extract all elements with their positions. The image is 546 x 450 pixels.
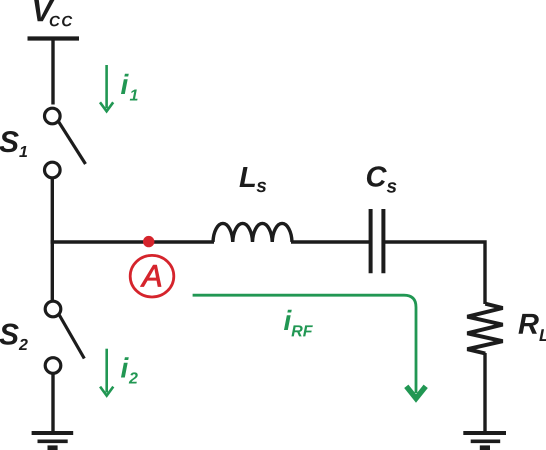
wire junction to S2 [51, 240, 54, 301]
label RL [519, 314, 539, 334]
node A circle [130, 255, 174, 297]
resistor RL [467, 304, 502, 354]
ground (right) [463, 433, 506, 448]
label i1 [121, 74, 129, 94]
wire inductor to capacitor [291, 240, 371, 243]
Vcc power rail bar [28, 36, 80, 40]
label CS [367, 166, 387, 187]
label i2 [121, 357, 129, 377]
label LS [240, 167, 256, 187]
label iRF [284, 310, 292, 330]
current arrow i1 [100, 65, 113, 111]
wire Vcc to S1 [51, 39, 54, 105]
node dot (red) [143, 236, 154, 247]
main horizontal wire: junction to inductor [51, 240, 214, 243]
node A letter [140, 265, 161, 286]
current path iRF [193, 295, 426, 398]
wire RL to ground [483, 353, 486, 433]
wire capacitor to RL corner [383, 242, 485, 304]
current arrow i2 [100, 349, 113, 396]
inductor LS [213, 223, 292, 242]
switch S2 [45, 301, 84, 373]
label Vcc [34, 0, 54, 21]
label S2 [0, 324, 19, 345]
ground (left) [32, 433, 74, 448]
capacitor CS [371, 209, 384, 273]
switch S1 [45, 108, 86, 178]
wire S2 to ground [51, 374, 54, 434]
wire S1 to junction node [51, 178, 54, 244]
label S1 [0, 131, 19, 152]
